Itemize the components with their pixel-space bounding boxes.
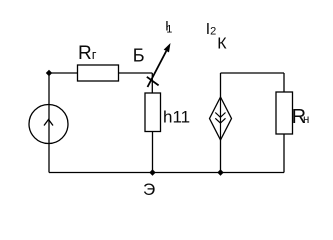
svg-text:Б: Б bbox=[133, 46, 145, 66]
svg-text:Э: Э bbox=[143, 180, 155, 199]
svg-text:К: К bbox=[217, 36, 227, 53]
svg-text:I2: I2 bbox=[206, 21, 216, 38]
svg-text:Rн: Rн bbox=[292, 106, 310, 128]
svg-text:h11: h11 bbox=[163, 108, 190, 127]
svg-text:Rг: Rг bbox=[78, 43, 97, 64]
svg-text:1: 1 bbox=[166, 24, 172, 36]
